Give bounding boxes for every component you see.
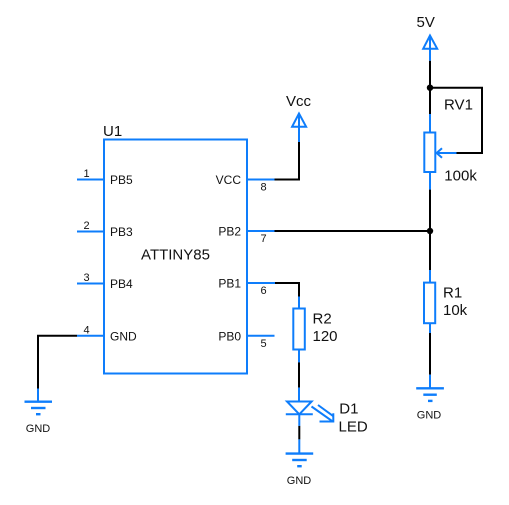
pin 4 stub (GND) xyxy=(77,335,104,337)
svg-text:PB3: PB3 xyxy=(110,225,133,239)
LED D1 symbol: triangle and cathode bar xyxy=(286,402,313,415)
pin 1 stub (PB5) xyxy=(77,179,104,181)
pin 2 stub (PB3) xyxy=(77,231,104,233)
svg-text:PB0: PB0 xyxy=(218,329,241,343)
svg-text:R1: R1 xyxy=(443,284,462,301)
svg-text:8: 8 xyxy=(260,182,266,194)
ground symbol bottom-right xyxy=(416,388,444,401)
svg-text:PB4: PB4 xyxy=(110,277,133,291)
svg-text:3: 3 xyxy=(83,272,89,284)
svg-text:PB2: PB2 xyxy=(218,225,241,239)
svg-text:100k: 100k xyxy=(444,168,477,185)
svg-text:GND: GND xyxy=(110,329,137,343)
wire R2 to LED (black) xyxy=(298,362,300,387)
svg-text:6: 6 xyxy=(260,285,266,297)
potentiometer RV1 body xyxy=(424,133,435,173)
pin 5 stub (PB0) xyxy=(247,335,275,337)
svg-text:7: 7 xyxy=(260,233,266,245)
svg-text:1: 1 xyxy=(83,168,89,180)
wire 5V to node B (black) xyxy=(429,61,431,88)
RV1 top lead (blue) xyxy=(429,114,431,133)
svg-text:GND: GND xyxy=(287,475,312,487)
R1 bottom lead (blue) xyxy=(429,323,431,333)
svg-text:LED: LED xyxy=(339,419,368,436)
svg-text:10k: 10k xyxy=(443,302,468,319)
wire pin4 to left ground (black) xyxy=(38,336,77,389)
ground lead middle (blue) xyxy=(298,439,300,453)
svg-text:GND: GND xyxy=(417,409,442,421)
svg-text:Vcc: Vcc xyxy=(286,93,312,110)
5V power symbol (blue arrow) xyxy=(423,36,437,61)
op-amp U1 body: ATTINY85 IC xyxy=(104,140,247,374)
wire RV1 to node A and R1 (black) xyxy=(429,190,431,270)
RV1 bottom lead (blue) xyxy=(429,172,431,190)
wire RV1 wiper loop (black) xyxy=(430,88,482,153)
svg-text:5V: 5V xyxy=(417,14,435,31)
svg-text:ATTINY85: ATTINY85 xyxy=(141,247,210,264)
wire R1 to ground (black) xyxy=(429,333,431,375)
svg-text:VCC: VCC xyxy=(216,173,242,187)
wire pin8 to Vcc (black) xyxy=(275,142,300,180)
ground symbol below LED xyxy=(286,454,314,467)
R1 top lead (blue) xyxy=(429,270,431,283)
LED bottom lead (blue) xyxy=(298,414,300,426)
svg-text:PB1: PB1 xyxy=(218,277,241,291)
R2 bottom lead (blue) xyxy=(298,350,300,363)
resistor R1 body xyxy=(424,283,435,324)
pin 8 stub (VCC) xyxy=(247,179,275,181)
svg-text:4: 4 xyxy=(83,324,89,336)
svg-text:R2: R2 xyxy=(313,311,332,328)
svg-text:5: 5 xyxy=(260,338,266,350)
Vcc power symbol (blue arrow) xyxy=(292,114,306,143)
svg-text:RV1: RV1 xyxy=(444,97,473,114)
LED D1 light-emission arrows xyxy=(312,405,334,422)
svg-text:120: 120 xyxy=(313,328,338,345)
ground symbol bottom-left xyxy=(25,402,53,415)
junction node B (RV1 top) xyxy=(427,85,433,91)
pin 6 stub (PB1) xyxy=(247,282,275,284)
svg-text:2: 2 xyxy=(83,220,89,232)
ground lead right (blue) xyxy=(429,375,431,389)
wire pin7 to node A (black) xyxy=(275,230,431,232)
LED top lead (blue) xyxy=(298,388,300,402)
pin 7 stub (PB2) xyxy=(247,230,275,232)
RV1 wiper arrow (blue) xyxy=(437,148,457,157)
resistor R2 body xyxy=(293,309,305,350)
junction node A (PB2 / divider) xyxy=(427,228,433,234)
ground lead (blue) bottom-left xyxy=(37,389,39,402)
wire pin6 to R2 (black) xyxy=(275,283,299,297)
svg-text:GND: GND xyxy=(26,423,51,435)
svg-text:D1: D1 xyxy=(339,401,358,418)
pin 3 stub (PB4) xyxy=(77,283,104,285)
svg-text:PB5: PB5 xyxy=(110,173,133,187)
svg-text:U1: U1 xyxy=(103,123,122,140)
R2 top lead (blue) xyxy=(298,297,300,309)
wire node B down to RV1 (black) xyxy=(429,88,431,114)
wire LED to ground (black) xyxy=(298,426,300,440)
